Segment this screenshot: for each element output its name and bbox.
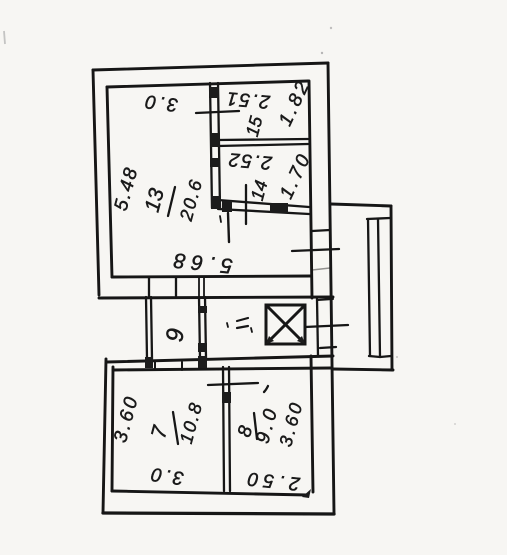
wall: top block inner left xyxy=(107,87,112,277)
door jamb room14 xyxy=(245,185,247,224)
svg-text:3.0: 3.0 xyxy=(141,90,179,115)
bottom block outer left xyxy=(103,359,106,513)
door lintel room13-room15 xyxy=(196,111,239,113)
wall: building outer right xyxy=(328,63,334,513)
wall: top block outer top xyxy=(93,63,328,70)
door line room7/8 xyxy=(208,383,258,385)
fraction line 7/10.8 xyxy=(173,412,178,444)
elevator shaft X diagonal 1 xyxy=(267,306,304,343)
wall: room14 bottom xyxy=(218,200,309,214)
black hatch: divider7/8 seg xyxy=(222,392,231,403)
wall: right inner bottom block xyxy=(311,356,313,492)
stray mark left edge xyxy=(4,31,5,44)
window line y250 xyxy=(292,249,339,251)
elevator shaft box xyxy=(266,305,305,344)
fraction line 8/9.0 xyxy=(254,413,257,439)
black hatch: room9 right wall segs xyxy=(198,306,207,313)
corridor bottom wall lower xyxy=(113,368,331,370)
svg-text:9: 9 xyxy=(161,327,189,343)
wall: top block outer left xyxy=(93,70,99,295)
stair vertical 2 xyxy=(378,219,380,357)
wall: right inner top block xyxy=(309,81,312,298)
fraction line 13/20.6 xyxy=(168,187,175,216)
wall hatch rung y231 xyxy=(312,230,330,231)
faint rung y269 xyxy=(312,268,330,270)
wall: right inner corridor xyxy=(317,299,318,356)
label 11 stroke1 xyxy=(237,318,248,321)
room 9 right wall ticks up xyxy=(199,278,204,296)
bottom block inner left xyxy=(112,367,113,491)
wall: top block inner top xyxy=(107,81,308,87)
stair top line xyxy=(367,218,390,219)
room 9 right wall xyxy=(199,297,206,358)
corridor wall ticks xyxy=(155,362,182,370)
corridor bottom wall upper xyxy=(107,356,333,362)
wall: divider room13/15 line1 xyxy=(210,83,212,208)
wall: divider room15/14 xyxy=(218,139,308,146)
stray speck 3 xyxy=(396,356,398,358)
room 9 left wall tick up xyxy=(148,278,150,296)
stray speck 4 xyxy=(454,423,456,425)
label 11 tick2 xyxy=(251,328,252,332)
stray speck 2 xyxy=(321,52,323,54)
arrow join bottom inner xyxy=(302,489,311,498)
black hatch: room9 wall base blobs xyxy=(145,357,153,368)
divider room7/8 xyxy=(223,367,230,491)
protrusion top xyxy=(331,204,391,206)
stair vertical 1 xyxy=(368,219,370,356)
svg-text:2.52: 2.52 xyxy=(226,148,274,173)
stray speck 1 xyxy=(330,27,332,29)
wall hatch into protrusion y347 xyxy=(320,347,336,348)
bottom block outer bottom xyxy=(103,513,334,514)
protrusion right xyxy=(391,206,392,370)
room 9 left wall xyxy=(146,297,152,359)
wall: divider room13/15 line2 xyxy=(218,83,220,208)
elevator shaft X diagonal 2 xyxy=(267,306,304,343)
comma mark xyxy=(264,386,268,392)
wall: top block bottom outer xyxy=(99,297,333,298)
wall rung y300 xyxy=(318,299,333,300)
label 11 tick1 xyxy=(227,323,228,327)
tick hall xyxy=(220,216,221,222)
protrusion bottom xyxy=(333,369,393,370)
door jamb hall xyxy=(228,213,229,242)
stair bottom lines xyxy=(369,356,391,357)
black hatch: divider13/15 segs xyxy=(209,87,219,98)
svg-text:2.51: 2.51 xyxy=(224,87,272,112)
label 11 stroke2 xyxy=(237,326,248,328)
wall tick x176 xyxy=(175,278,177,296)
wall: room 13 bottom inner xyxy=(112,276,311,277)
elevator X corner blobs xyxy=(266,336,274,344)
elevator leader line xyxy=(305,325,348,327)
black hatch: room14 bottom wall segs xyxy=(222,201,232,212)
bottom block inner bottom xyxy=(112,491,308,495)
